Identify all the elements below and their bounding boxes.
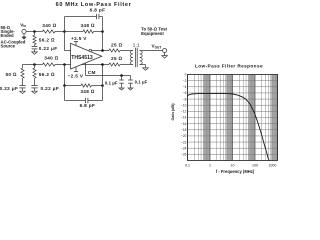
svg-text:Vin: Vin <box>20 22 26 28</box>
svg-text:−4: −4 <box>183 85 187 89</box>
wire 340 ohm to node <box>55 31 65 33</box>
wire 348 ohm to riser bottom <box>92 85 103 87</box>
wire riser to top output <box>102 32 104 51</box>
junction dot bottom feedback left <box>63 84 66 87</box>
svg-text:50 Ω: 50 Ω <box>5 72 17 77</box>
transformer core <box>134 48 136 68</box>
ground 50 ohm branch <box>20 91 26 93</box>
ground bottom shunt <box>32 91 38 93</box>
svg-text:6.8 pF: 6.8 pF <box>80 103 96 108</box>
junction dot bottom feedback right <box>101 84 104 87</box>
wire secondary bottom <box>140 64 146 66</box>
graph minor-gridline bands <box>204 75 210 161</box>
graph minor vertical gridlines <box>193 75 195 161</box>
svg-text:56.2 Ω: 56.2 Ω <box>39 72 55 77</box>
svg-text:1:1: 1:1 <box>133 43 140 48</box>
wire top output to transformer <box>120 50 133 52</box>
svg-text:−26: −26 <box>181 153 187 157</box>
resistor 56.2 ohm (bottom shunt) <box>34 65 36 69</box>
capacitor 6.8 pF bottom loop <box>64 86 66 101</box>
capacitor 0.22 uF (bottom shunt) <box>34 78 36 85</box>
svg-text:1: 1 <box>209 164 211 168</box>
wire 340 ohm to -input <box>55 64 71 66</box>
capacitor 0.22 uF (50 ohm branch) <box>22 78 24 85</box>
svg-text:f - Frequency (MHz): f - Frequency (MHz) <box>216 169 255 174</box>
ground CM cap right <box>128 88 133 90</box>
svg-text:−14: −14 <box>181 116 187 120</box>
positive supply pin +2.5V <box>75 42 77 46</box>
svg-text:0: 0 <box>185 73 187 77</box>
input terminal Vin <box>22 29 26 33</box>
graph border <box>188 75 278 161</box>
resistor 25 ohm bottom <box>109 63 120 66</box>
source arrow under Vin <box>23 34 25 37</box>
output terminal Vout <box>163 49 167 53</box>
wire CM pin <box>85 63 87 76</box>
wire -input rail down <box>64 65 66 86</box>
wire bottom output to transformer <box>120 64 133 66</box>
junction dot bottom-left <box>33 63 36 66</box>
svg-text:Equipment: Equipment <box>141 31 164 36</box>
junction dot top-left <box>33 30 36 33</box>
svg-text:Gain (dB): Gain (dB) <box>171 103 175 121</box>
svg-text:−16: −16 <box>181 122 187 126</box>
svg-text:CM: CM <box>88 70 96 75</box>
junction dot bottom output <box>101 63 104 66</box>
junction dot inN node <box>63 63 66 66</box>
op-amp U1 THS4513 triangle <box>71 43 102 69</box>
svg-text:−24: −24 <box>181 146 187 150</box>
graph horizontal gridlines <box>188 80 278 82</box>
svg-text:56.2 Ω: 56.2 Ω <box>39 37 55 42</box>
svg-text:VOUT: VOUT <box>152 44 162 50</box>
svg-text:−20: −20 <box>181 134 187 138</box>
junction dot CM caps <box>120 74 123 77</box>
graph decade gridlines <box>187 75 189 161</box>
svg-text:−8: −8 <box>183 97 187 101</box>
svg-text:−10: −10 <box>181 103 187 107</box>
transformer secondary winding <box>140 51 143 65</box>
svg-text:340 Ω: 340 Ω <box>42 23 57 28</box>
junction dot top feedback <box>101 30 104 33</box>
wire Vin to 340 ohm <box>26 31 42 33</box>
svg-text:−2: −2 <box>183 79 187 83</box>
wire riser bottom output <box>102 65 104 86</box>
junction dot inP node <box>63 30 66 33</box>
wire +input stub <box>64 32 66 51</box>
ground secondary <box>143 68 149 70</box>
capacitor 0.1 uF right <box>130 76 132 80</box>
svg-text:340 Ω: 340 Ω <box>44 55 59 60</box>
svg-text:348 Ω: 348 Ω <box>80 23 95 28</box>
wire bottom input line <box>23 64 43 66</box>
svg-text:0.22 μF: 0.22 μF <box>41 86 60 91</box>
wire 348 ohm to riser <box>94 31 103 33</box>
ground top shunt <box>32 52 38 54</box>
svg-text:0.1: 0.1 <box>185 164 190 168</box>
ground at Vout <box>164 53 166 56</box>
svg-text:+2.5 V: +2.5 V <box>71 36 87 41</box>
resistor 348 ohm top feedback <box>83 30 94 33</box>
wire node to 348 ohm <box>65 31 84 33</box>
svg-text:25 Ω: 25 Ω <box>111 56 123 61</box>
svg-text:0.22 μF: 0.22 μF <box>0 86 18 91</box>
resistor 50 ohm (shunt) <box>22 65 24 69</box>
wire feedback to 348 ohm <box>65 85 82 87</box>
svg-text:25 Ω: 25 Ω <box>111 43 123 48</box>
junction dot top output <box>101 49 104 52</box>
svg-text:6.8 pF: 6.8 pF <box>90 8 106 13</box>
svg-text:Low-Pass Filter Response: Low-Pass Filter Response <box>195 64 263 69</box>
transformer primary winding <box>130 51 133 65</box>
resistor 25 ohm top <box>109 49 120 52</box>
resistor 348 ohm bottom feedback <box>81 84 92 87</box>
svg-text:100: 100 <box>252 164 258 168</box>
svg-text:Source: Source <box>1 43 16 48</box>
svg-text:1000: 1000 <box>268 164 276 168</box>
capacitor 0.1 uF left <box>121 76 123 80</box>
svg-text:−22: −22 <box>181 140 187 144</box>
negative supply pin -2.5V <box>75 67 77 72</box>
svg-text:−2.5 V: −2.5 V <box>68 74 84 79</box>
resistor 340 ohm top <box>43 30 56 33</box>
svg-text:348 Ω: 348 Ω <box>80 89 95 94</box>
output inversion bubble <box>89 49 92 52</box>
wire secondary top to Vout <box>140 50 163 52</box>
svg-text:−6: −6 <box>183 91 187 95</box>
svg-text:−18: −18 <box>181 128 187 132</box>
ground CM cap left <box>119 88 124 90</box>
wire bottom output <box>81 64 109 66</box>
resistor 340 ohm bottom <box>43 63 56 66</box>
filter response curve <box>188 94 270 161</box>
capacitor 6.8 pF top loop <box>64 17 66 32</box>
svg-text:0.1 μF: 0.1 μF <box>105 81 118 86</box>
resistor 56.2 ohm (top shunt) <box>34 32 36 36</box>
svg-text:0.1 μF: 0.1 μF <box>135 79 148 84</box>
capacitor 0.22 uF (top shunt) <box>34 45 36 46</box>
svg-text:−12: −12 <box>181 110 187 114</box>
svg-text:0.22 μF: 0.22 μF <box>39 46 58 51</box>
svg-text:THS4513: THS4513 <box>71 55 93 61</box>
svg-text:Ended: Ended <box>1 33 15 38</box>
svg-text:10: 10 <box>231 164 235 168</box>
wire top output <box>92 50 109 52</box>
